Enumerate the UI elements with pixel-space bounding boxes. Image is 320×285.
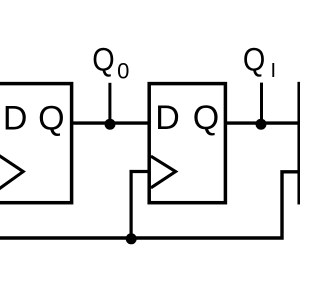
- wire: Q1 stem (vertical drop from label): [260, 83, 263, 124]
- node: junction dot on Q1 net: [256, 119, 267, 130]
- flip-flop U3 box (right, mostly off-canvas): [299, 84, 320, 203]
- svg-text:D: D: [3, 100, 28, 138]
- flip-flop U1 box (left, partially off-canvas): [0, 84, 72, 203]
- wire: U2 Q output to U3 D input: [225, 121, 299, 124]
- svg-text:Q: Q: [92, 42, 114, 78]
- clock triangle (U1): [0, 153, 23, 191]
- wire: clock line (bottom horizontal, rising to U3 clock input): [0, 172, 299, 238]
- wire: Q0 stem (vertical drop from label): [108, 83, 111, 123]
- wire: U2 clock input branch (stub and riser to clock line): [131, 172, 149, 239]
- wire: U1 Q output to U2 D input: [72, 121, 150, 124]
- flip-flop U2 box (middle): [149, 84, 225, 203]
- svg-text:D: D: [155, 99, 180, 137]
- svg-text:Q: Q: [243, 41, 265, 77]
- node: junction dot on Q0 net: [105, 119, 116, 130]
- svg-text:I: I: [271, 60, 277, 82]
- svg-text:0: 0: [117, 59, 129, 84]
- node: junction dot on clock line: [126, 233, 137, 244]
- clock triangle (U2): [151, 156, 176, 188]
- svg-text:Q: Q: [193, 99, 219, 137]
- svg-text:Q: Q: [38, 100, 64, 138]
